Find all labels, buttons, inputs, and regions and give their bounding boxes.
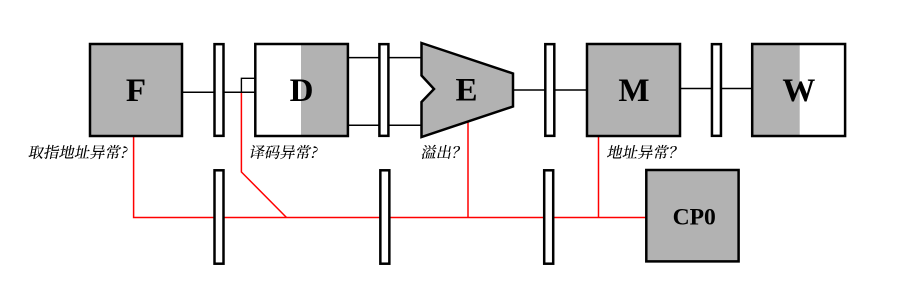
svg-text:W: W xyxy=(782,73,815,109)
svg-text:E: E xyxy=(455,73,477,109)
svg-text:D: D xyxy=(290,73,314,109)
svg-text:F: F xyxy=(126,73,146,109)
svg-text:CP0: CP0 xyxy=(673,205,716,231)
svg-text:M: M xyxy=(618,73,649,109)
